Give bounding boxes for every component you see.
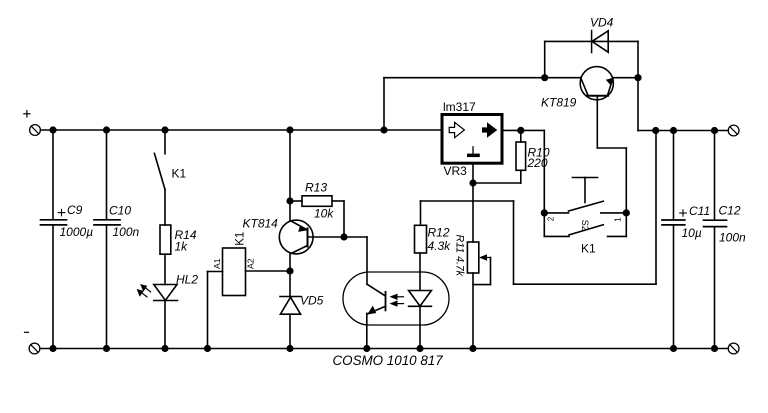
svg-text:R11 4.7k: R11 4.7k [454,234,466,276]
junction at R13 left / emitter column [286,197,293,204]
capacitor C11 [662,131,685,349]
capacitor C10 [94,130,120,349]
label: C11 plus mark [680,210,687,216]
LED HL2 [154,285,178,349]
svg-text:KT814: KT814 [243,216,279,230]
svg-text:C12: C12 [719,204,741,218]
potentiometer R11 [467,242,490,349]
junction on bottom rail at C11 [670,345,677,352]
svg-text:10µ: 10µ [682,226,702,240]
junction on bottom rail at VD5 [286,345,293,352]
wire: ADJ node to R10 bottom [473,182,521,184]
wire: VD4 top line [545,40,638,42]
transistor KT819 [580,67,638,148]
resistor R13 [290,196,344,237]
svg-text:K1: K1 [172,166,187,180]
wire: rail to KT814 emitter [289,130,291,201]
relay coil K1 [208,248,291,349]
label: C9 plus mark [58,209,65,215]
diode VD4 [592,31,609,53]
junction at R13 right / base wire [340,233,347,240]
wire: top positive rail [41,129,443,131]
capacitor C12 [704,131,727,349]
wire: bottom negative rail [40,348,728,350]
svg-text:R13: R13 [305,181,327,195]
terminal: - input bottom-left [29,343,40,354]
svg-text:K1: K1 [235,232,247,246]
svg-text:S2: S2 [580,220,590,231]
resistor R10 [516,130,526,183]
label: + polarity mark [24,111,30,117]
svg-text:A2: A2 [245,258,255,269]
terminal: output bottom-right [728,343,739,354]
junction on bottom rail at C9 [49,345,56,352]
label: - polarity mark [25,331,29,333]
svg-text:1k: 1k [175,240,189,254]
junction at VD4 anode column [541,74,548,81]
optocoupler light arrows [390,294,404,307]
terminal: output top-right [728,125,739,136]
junction on top rail at K1 switch column [161,126,168,133]
svg-text:VR3: VR3 [444,164,468,178]
capacitor C9 [41,130,67,349]
wire: VD4 left leg [544,41,546,77]
svg-text:C10: C10 [109,203,131,217]
junction on bottom rail at opto emitter [363,345,370,352]
junction on top rail at C9 [49,126,56,133]
resistor R14 [160,225,171,254]
junction on bottom rail at C10 [103,345,110,352]
optocoupler phototransistor [367,284,386,348]
junction at ADJ node [469,179,476,186]
wire: LM317 output to K1 contacts riser [502,130,544,213]
junction on top rail at C10 [103,126,110,133]
svg-text:KT819: KT819 [541,95,577,109]
svg-text:C11: C11 [689,204,710,218]
svg-text:VD5: VD5 [300,293,324,307]
wire: VD4 right leg to output rail [637,41,639,130]
junction on bottom rail at opto LED [416,345,423,352]
svg-text:100n: 100n [113,225,140,239]
svg-text:1000µ: 1000µ [60,225,94,239]
wire: ADJ node down to R11 [472,183,474,242]
junction on top rail at KT814 column [286,126,293,133]
svg-text:HL2: HL2 [176,272,198,286]
junction at LM317 output / R10 top [517,127,524,134]
svg-text:A1: A1 [212,258,222,269]
svg-text:lm317: lm317 [443,100,476,114]
wire: KT819 base to K1 contact [597,148,626,213]
junction on bottom rail at relay A1 [204,345,211,352]
svg-text:10k: 10k [314,206,334,220]
wire: output sense line y=284 [514,131,657,285]
junction at KT814 collector / relay A2 [286,267,293,274]
svg-text:1: 1 [614,217,623,222]
relay actuator link symbol [573,178,598,203]
junction on output rail at sense column [652,127,659,134]
svg-text:VD4: VD4 [590,15,614,29]
svg-text:COSMO 1010 817: COSMO 1010 817 [333,353,444,368]
junction on bottom rail at C12 [711,345,718,352]
optocoupler U1 body [343,272,449,325]
junction at contact right node [623,209,630,216]
svg-text:C9: C9 [67,203,83,217]
junction on output rail at C11 [670,127,677,134]
LED HL2 emission arrows [137,284,151,297]
junction on bottom rail at HL2 [161,345,168,352]
junction on output rail at C12 [711,127,718,134]
wire: R14 to HL2 [164,254,166,284]
wire: KT814 base to optocoupler [308,237,368,284]
switch K1 sense contact (top left) [154,130,165,225]
junction at contact left node [541,209,548,216]
junction on bottom rail at R11 [469,345,476,352]
junction at KT819 emitter / VD4 [634,74,641,81]
wire: VD4 loop riser from top rail [384,78,581,130]
junction on top rail at VD4 loop riser [380,126,387,133]
svg-text:K1: K1 [581,241,596,255]
svg-text:R12: R12 [428,225,450,239]
diode VD5 [280,271,301,349]
wire: LM317 ADJ pin [472,163,474,183]
regulator VR3 lm317 [442,115,502,164]
terminal: + input top-left [30,125,41,136]
svg-text:4.3k: 4.3k [428,239,452,253]
contact switch bottom [544,213,626,237]
transistor KT814 [279,201,313,271]
svg-text:100n: 100n [719,231,746,245]
svg-text:2: 2 [547,216,556,221]
contact switch top [544,201,626,213]
resistor R12 [415,225,427,253]
wire: R12 top to ADJ line [421,201,514,225]
wire: top output rail right [638,130,728,132]
optocoupler LED [409,253,432,349]
